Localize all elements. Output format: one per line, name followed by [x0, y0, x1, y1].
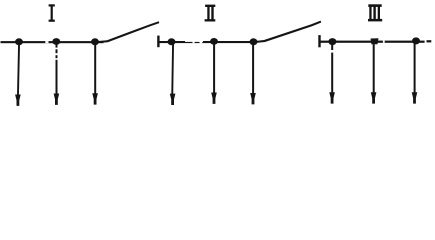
switch blade II-III (open disconnector): [254, 21, 322, 44]
feeder arrow 1 (bus II): [170, 44, 176, 105]
feeder arrow 2 (bus III): [371, 44, 377, 103]
wire busbar III: [319, 40, 431, 43]
node dot 3 on bus II: [250, 38, 258, 45]
feeder arrow 1 (bus I): [15, 44, 21, 106]
node dot 2 on bus I: [52, 38, 60, 45]
wire busbar II: [158, 41, 257, 43]
label III (section III): [368, 4, 382, 21]
switch fixed contact bar III: [318, 35, 320, 47]
label I (section I): [49, 4, 55, 22]
feeder arrow 2 (bus I): [54, 44, 60, 105]
node dot 3 on bus III: [412, 37, 420, 44]
node dot 2 on bus III: [371, 38, 379, 44]
feeder arrow 3 (bus III): [412, 44, 418, 104]
label II (section II): [205, 5, 216, 22]
node dot 1 on bus II: [168, 38, 176, 45]
switch fixed contact bar II: [157, 36, 159, 48]
node dot 2 on bus II: [210, 38, 218, 45]
feeder arrow 3 (bus I): [92, 44, 98, 105]
wire busbar I: [1, 41, 104, 43]
switch blade I-II (open disconnector): [95, 21, 159, 43]
feeder arrow 2 (bus II): [211, 44, 217, 104]
feeder arrow 1 (bus III): [329, 44, 335, 104]
feeder arrow 3 (bus II): [250, 44, 256, 104]
node dot 3 on bus I: [91, 38, 99, 45]
node dot 1 on bus I: [15, 38, 23, 45]
node dot 1 on bus III: [328, 38, 336, 45]
